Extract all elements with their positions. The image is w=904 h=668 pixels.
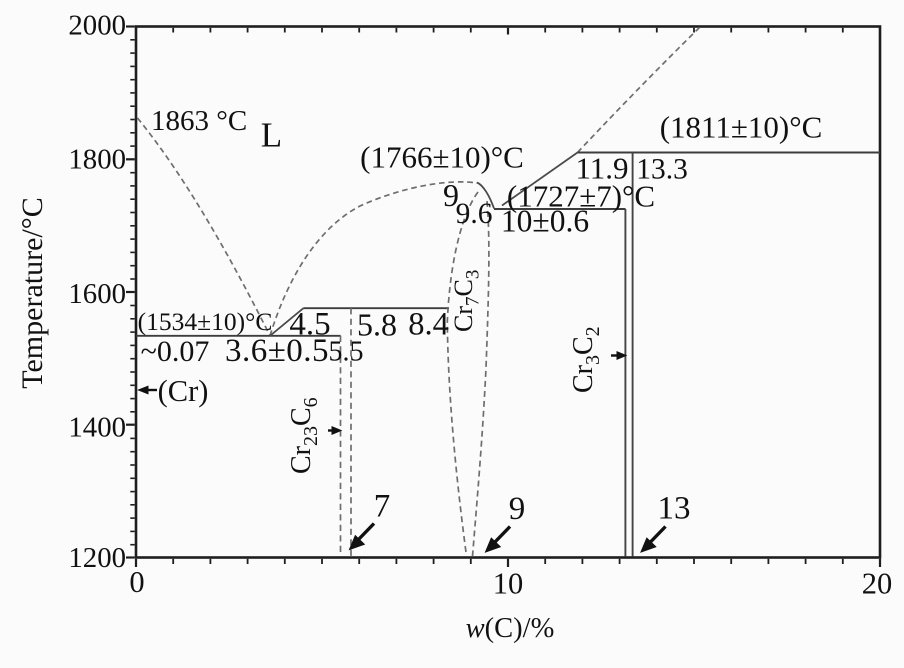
y-axis major ticks left [126,27,135,558]
svg-text:1800: 1800 [68,143,126,175]
arrow to Cr23C6 line [328,427,341,434]
svg-text:10±0.6: 10±0.6 [501,204,589,239]
liquidus solid: 1727 eutectic rising to 1811 peritectic [502,153,578,206]
svg-text:Cr7C3: Cr7C3 [449,270,484,332]
liquidus dashed: above 1811 rising off top [578,27,701,153]
invariant line 1534 [136,335,341,337]
svg-text:(1766±10)°C: (1766±10)°C [360,140,524,175]
invariant line 1576 [303,307,449,309]
svg-text:10: 10 [493,567,524,601]
svg-text:3.6±0.5: 3.6±0.5 [225,333,329,369]
svg-text:20: 20 [862,567,893,601]
svg-text:(Cr): (Cr) [158,374,209,408]
x-axis major ticks bottom [136,559,880,567]
svg-text:Cr3C2: Cr3C2 [568,326,604,393]
svg-text:0: 0 [129,565,144,599]
x-axis minor ticks bottom [173,559,843,564]
Cr3C2 vertical line left [624,209,626,557]
Cr23C6 boundary dashed vertical at 5.5 [340,336,342,557]
invariant line 1727 [494,208,626,210]
arrow 13 [641,527,666,553]
svg-text:Temperature/°C: Temperature/°C [16,197,49,388]
svg-text:(1534±10)°C: (1534±10)°C [138,307,273,336]
liquidus solid: dome descent to 1727 eutectic [477,183,494,209]
liquidus dashed: eutectic up to Cr7C3 dome peak [270,182,477,336]
svg-text:2000: 2000 [68,10,126,42]
svg-text:~0.07: ~0.07 [141,335,210,368]
svg-text:9.6: 9.6 [456,198,493,230]
x-axis minor ticks top [173,28,843,35]
Cr7C3 lens left dashed boundary [447,192,478,556]
svg-text:8.4: 8.4 [408,307,449,343]
svg-text:L: L [261,116,282,155]
svg-text:(1811±10)°C: (1811±10)°C [660,110,823,145]
svg-text:1400: 1400 [68,412,126,444]
Cr23C6 boundary dashed vertical at 5.8 [350,308,352,556]
svg-text:13: 13 [658,491,691,527]
svg-text:11.9: 11.9 [575,151,628,186]
arrow to (Cr) [139,386,158,394]
svg-text:1200: 1200 [68,542,126,574]
svg-text:Cr23C6: Cr23C6 [286,397,322,474]
Cr7C3 lens right dashed boundary [473,201,489,556]
svg-text:w(C)/%: w(C)/% [466,613,555,644]
svg-text:7: 7 [374,489,391,525]
arrow 9 [486,527,511,553]
svg-text:1863 °C: 1863 °C [151,105,247,137]
svg-text:1600: 1600 [68,278,126,310]
svg-text:5.5: 5.5 [329,337,364,368]
liquidus dashed: Cr side from 1863 to eutectic [138,118,271,336]
invariant line 1811 [578,152,881,154]
y-axis minor ticks left [130,40,134,545]
svg-text:13.3: 13.3 [636,154,688,186]
arrow to Cr3C2 line [611,352,626,359]
plot frame [136,27,880,558]
connector eutectic to 1576 [270,308,303,336]
arrow 7 [350,524,375,550]
Cr3C2 vertical line right [632,153,634,557]
svg-text:9: 9 [509,491,526,527]
